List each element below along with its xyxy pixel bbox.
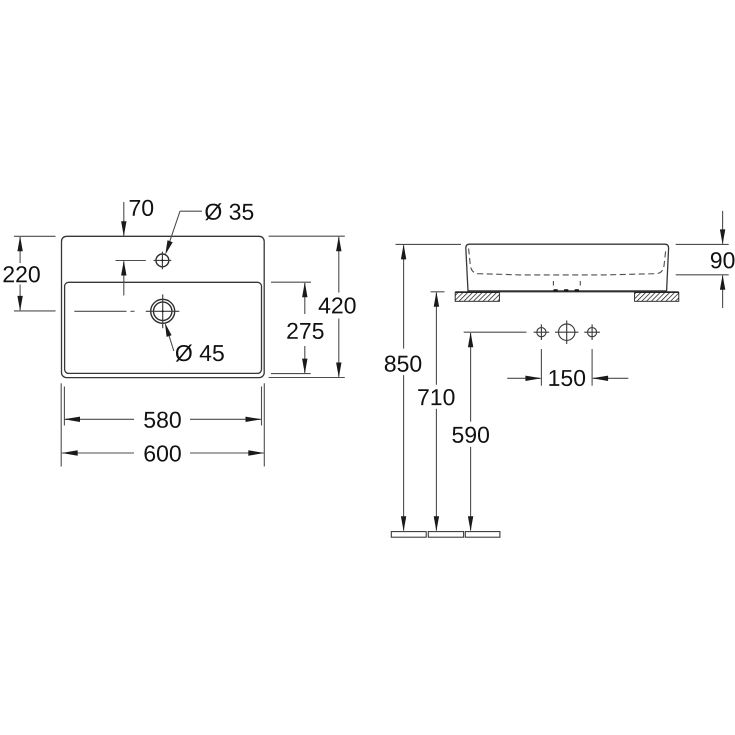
drain hidden lines (553, 281, 580, 291)
dim 600 (61, 383, 264, 466)
label Ø 35 leader (165, 203, 253, 254)
faucet holes (front view) (534, 324, 550, 340)
dim 420 (269, 236, 356, 377)
basin outer rim (top view) (62, 236, 265, 377)
basin inner contour hidden line (469, 249, 666, 275)
faucet hole Ø35 (154, 252, 172, 270)
drain centerline (74, 310, 134, 312)
basin side profile (front view) (466, 244, 669, 291)
label Ø 45 leader (165, 323, 224, 362)
basin inner bowl (top view) (65, 282, 262, 373)
floor segment 3 (465, 532, 500, 538)
dim 710 (418, 292, 454, 531)
right wall hatch (635, 293, 679, 302)
dim 275 (271, 282, 324, 373)
drain hole Ø45 (146, 294, 180, 328)
floor segment 2 (428, 532, 463, 538)
dim 90 (676, 211, 735, 308)
left wall hatch (455, 293, 499, 302)
dim 580 (64, 387, 262, 428)
floor segment 1 (391, 532, 426, 538)
dim 220 (3, 236, 55, 311)
dim 70 upper (121, 200, 153, 237)
dim 590 (452, 332, 489, 531)
dim 150 (507, 349, 628, 386)
dim 850 (385, 244, 461, 531)
holes centerline extension (464, 331, 527, 333)
mounting surface line (455, 291, 679, 293)
dim 70 lower arrow (116, 261, 146, 296)
